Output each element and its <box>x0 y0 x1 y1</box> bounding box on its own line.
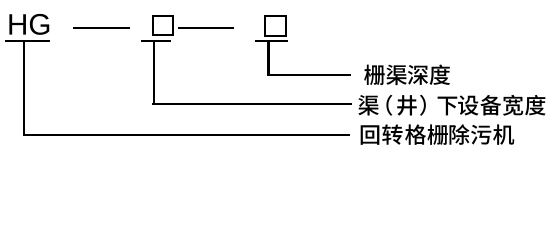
leader line to label 渠（井）下设备宽度 <box>152 103 352 105</box>
wire from box 1 to box 2 <box>178 27 234 29</box>
box 2 (second spec placeholder) <box>264 15 288 37</box>
underline under box 1 <box>141 40 172 42</box>
label 回转格栅除污机 <box>0 0 559 158</box>
leader line to label 栅渠深度 <box>268 74 351 76</box>
leader stem from box 2 <box>267 42 269 76</box>
underline under box 2 <box>255 40 288 42</box>
box 1 (first spec placeholder) <box>152 15 174 37</box>
leader stem from HG <box>23 42 25 136</box>
underline under HG <box>5 40 50 42</box>
label 栅渠深度 <box>0 0 559 158</box>
wire from HG to first box <box>73 27 131 29</box>
leader line to label 回转格栅除污机 <box>23 134 350 136</box>
text HG (model code letters) <box>0 0 559 158</box>
label 渠（井）下设备宽度 <box>0 0 559 158</box>
leader stem from box 1 <box>153 42 156 105</box>
